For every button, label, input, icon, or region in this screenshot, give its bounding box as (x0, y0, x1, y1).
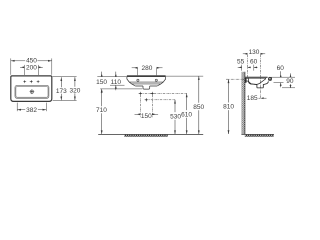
svg-text:60: 60 (250, 59, 258, 66)
rim top (side) (245, 76, 268, 78)
front edge knob (side) (268, 77, 272, 81)
drain hole (plan) (30, 90, 34, 94)
dimension 610 (front) (186, 93, 188, 134)
svg-text:185: 185 (247, 95, 258, 102)
supply point left (front) (139, 92, 142, 95)
wall hatch (side) (241, 72, 244, 134)
dimension 382 (plan) (17, 103, 46, 112)
dashed line drain to 530 (146, 99, 175, 101)
underside and trap (side) (245, 81, 269, 88)
basin outer rim (plan) (11, 76, 52, 102)
dimension 150 left (front) (101, 72, 103, 94)
floor line (side) (241, 133, 274, 135)
dimension 90 right (side) (290, 73, 292, 87)
dimension 280 (front) (132, 67, 163, 75)
dimension 60 top (side) (254, 65, 258, 71)
boundary line 150 / trap bottom extension (front) (100, 88, 142, 90)
dimension 185 (side) (259, 97, 267, 99)
dimension 173 (plan) (60, 77, 62, 100)
svg-text:710: 710 (96, 107, 107, 114)
svg-text:280: 280 (141, 65, 152, 72)
svg-text:810: 810 (223, 104, 234, 111)
dimension 850 (front) (198, 76, 200, 134)
bowl inner outline (plan) (16, 87, 48, 98)
svg-text:150: 150 (141, 113, 152, 120)
rim reference line extended (97, 76, 127, 78)
svg-text:530: 530 (170, 113, 181, 120)
extension lines right of plan (53, 77, 77, 101)
floor hatch (front) (124, 135, 168, 137)
dimension 200 (plan) (20, 65, 43, 75)
svg-text:90: 90 (286, 78, 294, 85)
floor line (front) (98, 133, 203, 135)
dashed line supply to 610 (140, 92, 186, 94)
supply point right (front) (151, 92, 154, 95)
basin side profile (245, 77, 272, 88)
mounting hole right (front) (155, 79, 157, 81)
svg-text:150: 150 (96, 79, 107, 86)
rim top extension right (side) (271, 76, 295, 78)
dimension 110 left (front) (115, 72, 117, 91)
dimension 55 (side) (238, 65, 251, 71)
dimension 710 (front) (101, 89, 103, 134)
mounting bracket (side) (245, 78, 246, 82)
svg-text:610: 610 (181, 111, 192, 118)
dimension 60 right (side) (280, 71, 282, 87)
floor hatch (side) (245, 135, 274, 137)
svg-text:320: 320 (69, 88, 80, 95)
boundary line 110 (front) (110, 84, 125, 86)
bowl outer outline (plan) (15, 86, 49, 99)
tap hole right (plan) (37, 80, 40, 83)
mounting level dash-dot line (side) (226, 78, 244, 80)
tap hole center (plan) (30, 80, 33, 83)
drain centerline dash-dot (side) (260, 55, 262, 98)
rim underside (side) (245, 77, 266, 79)
dashed drop line right supply (151, 95, 153, 118)
svg-text:130: 130 (249, 49, 260, 56)
dimension 150 bottom (front) (135, 113, 159, 115)
svg-text:450: 450 (26, 57, 37, 64)
drain point (front) (145, 98, 148, 101)
svg-text:850: 850 (193, 104, 204, 111)
tap centerline dash-dot (side) (246, 55, 248, 79)
dashed drop line left supply (139, 95, 141, 118)
basin rim (front, thick) (127, 75, 166, 77)
dimension 130 (side) (243, 53, 265, 55)
basin body outline (front) (127, 77, 166, 89)
wall face line (side) (244, 72, 246, 134)
dimension 810 (side) (228, 79, 230, 134)
dimension 320 (plan) (74, 77, 76, 100)
dimension 530 (front) (174, 100, 176, 134)
mounting hole left (front) (137, 79, 139, 81)
svg-text:55: 55 (237, 59, 245, 66)
drain trap stub (front) (143, 86, 150, 89)
bowl front underside extension (side) (274, 82, 284, 84)
svg-text:382: 382 (26, 107, 37, 114)
svg-text:200: 200 (26, 65, 37, 72)
bowl interior (side) (248, 78, 266, 84)
svg-text:173: 173 (56, 88, 67, 95)
svg-text:60: 60 (277, 65, 285, 72)
tap hole left (plan) (23, 80, 39, 94)
trap bottom extension (side) (282, 87, 295, 89)
dimension 450 (plan) (11, 58, 52, 74)
